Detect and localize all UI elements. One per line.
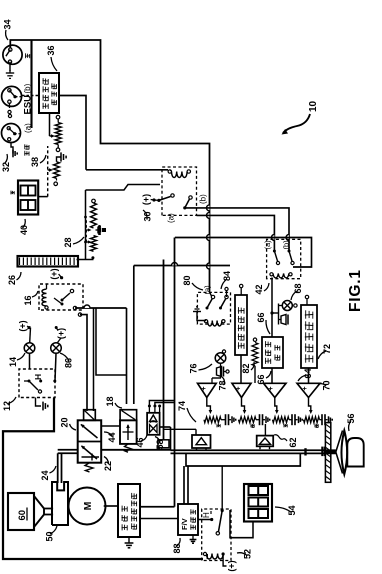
potentiometer 38a xyxy=(55,123,61,145)
pipe risers to box 46 xyxy=(170,427,172,450)
svg-text:H: H xyxy=(33,374,43,380)
output arrow T3 xyxy=(275,398,277,413)
wire bus to pump control xyxy=(140,506,175,508)
pipe flange at wall xyxy=(321,447,323,457)
contact arms of relay 80 xyxy=(206,307,209,310)
wire RC3 to box 62 xyxy=(264,424,266,436)
contact b of relay 30 xyxy=(183,206,186,209)
contact b of relay 42 xyxy=(288,250,291,253)
valve 20 position arrows xyxy=(82,446,98,459)
pedestal of box 62 xyxy=(259,446,261,449)
potentiometer 28b xyxy=(91,236,97,252)
svg-text:24: 24 xyxy=(40,470,50,480)
potentiometer 38b xyxy=(54,162,60,179)
relay 16 dashed box xyxy=(39,284,83,310)
wire lamp 14 to box 12 xyxy=(29,353,31,369)
wire box36 to pot A xyxy=(49,113,51,136)
stub to filter box 72 xyxy=(306,299,308,305)
wire border to coil 52 xyxy=(206,554,208,559)
contact arms of switch 16 xyxy=(61,299,64,302)
lower pipe run xyxy=(186,453,300,466)
svg-text:32: 32 xyxy=(1,162,11,172)
wire bar 26 to pot chain xyxy=(77,259,94,261)
measure box 66 xyxy=(262,337,283,368)
terminal dots below mid selector xyxy=(8,103,10,108)
svg-text:+: + xyxy=(302,386,309,390)
svg-text:42: 42 xyxy=(254,284,264,294)
coil 30 xyxy=(172,172,188,178)
svg-text:(a): (a) xyxy=(167,213,176,223)
main relay bus segment 2 xyxy=(174,238,176,507)
ground below box 12 xyxy=(36,398,42,407)
pedestal of box 74 xyxy=(196,448,198,450)
svg-text:(+): (+) xyxy=(141,194,151,205)
gang junction dots xyxy=(84,216,87,219)
bus 163 wire xyxy=(163,260,165,441)
contact terminals 16 xyxy=(73,306,76,309)
svg-text:(a): (a) xyxy=(24,123,33,133)
relay 52 dashed box xyxy=(202,509,231,561)
svg-text:FIG.1: FIG.1 xyxy=(347,269,364,312)
hopper 60 xyxy=(8,493,34,530)
buzzer 78b near lamp 68 xyxy=(279,319,282,321)
svg-text:+: + xyxy=(268,386,275,390)
svg-text:F/V: F/V xyxy=(180,518,189,530)
svg-text:(b): (b) xyxy=(199,194,208,204)
ground of selector 32 xyxy=(11,143,13,154)
ground between 34 and mid selector xyxy=(9,62,11,67)
nozzle body 56 xyxy=(347,438,363,467)
main pipe from valve 20 xyxy=(101,449,170,451)
relay 42 dashed box xyxy=(267,239,301,278)
wire bus into relay 80 xyxy=(210,292,212,296)
output arrow T2 xyxy=(242,398,245,413)
valve 18 spring xyxy=(125,444,132,452)
check valve cone xyxy=(150,415,158,422)
svg-text:62: 62 xyxy=(288,437,298,447)
pipe drop to FV converter xyxy=(183,466,185,504)
svg-text:18: 18 xyxy=(105,396,115,406)
svg-text:+: + xyxy=(236,386,243,390)
svg-text:(+): (+) xyxy=(49,268,59,279)
flow transducer box 62 xyxy=(257,436,274,447)
switch arm in box 12 xyxy=(28,380,31,383)
wire box 72 to opamp T4 xyxy=(308,368,310,383)
coil 16 xyxy=(42,289,47,306)
svg-text:38: 38 xyxy=(30,157,40,167)
sensor array bar 26 xyxy=(18,256,79,267)
svg-text:(b): (b) xyxy=(23,83,32,93)
selector switch mid xyxy=(2,86,22,106)
wires box 46 to bus xyxy=(149,401,174,407)
wire W2 drop xyxy=(85,190,87,260)
svg-text:60: 60 xyxy=(17,510,28,521)
warning lamp 68 xyxy=(279,305,283,307)
wire from selector 34 to relay bus xyxy=(10,40,209,292)
svg-text:16: 16 xyxy=(23,295,33,305)
wire box36 right to relay30 coil xyxy=(59,96,86,170)
pipe stub past wall xyxy=(324,451,336,453)
relay 30 dashed box xyxy=(162,167,197,215)
svg-text:34: 34 xyxy=(3,19,13,29)
ground bracket of coil 80 xyxy=(197,312,206,321)
wire contact 52 to pipe xyxy=(221,466,223,501)
wire valve 20 to valve 18 xyxy=(101,425,120,427)
wiper arrow 28a xyxy=(86,229,88,231)
ESU bus wire xyxy=(30,40,32,128)
opamp T2 xyxy=(232,383,251,397)
svg-text:20: 20 xyxy=(60,417,70,427)
svg-text:74: 74 xyxy=(177,401,187,411)
contact a of relay 30 xyxy=(154,199,159,201)
terminal of pot chain 28 xyxy=(92,199,96,203)
wire display 54 to relay 52 xyxy=(230,510,253,538)
stub of pressure box xyxy=(240,288,242,295)
pressure absent box xyxy=(235,295,247,355)
wire to valve 18 solenoid xyxy=(75,307,127,309)
spray cone 56 xyxy=(336,452,343,474)
wiper arrow 28b xyxy=(86,241,88,243)
svg-text:78: 78 xyxy=(218,380,228,390)
svg-text:28: 28 xyxy=(63,237,73,247)
check valve box 46 xyxy=(147,413,160,435)
coil 52 xyxy=(206,554,223,560)
pump motor M xyxy=(69,488,106,525)
svg-text:82: 82 xyxy=(241,363,251,373)
valve solenoid link wires xyxy=(93,308,95,411)
ground of box 88 xyxy=(192,535,194,540)
relay 80 dashed box xyxy=(197,292,230,324)
coil 42 xyxy=(273,274,289,278)
contact arm relay 52 xyxy=(221,509,224,512)
valve 20 solenoid xyxy=(84,410,96,421)
svg-text:14: 14 xyxy=(8,357,18,367)
svg-text:(+): (+) xyxy=(18,320,28,331)
wire lamp group to T1 xyxy=(220,371,222,378)
opamp T3 xyxy=(264,383,287,397)
svg-text:56: 56 xyxy=(346,413,356,423)
RC network under T2 xyxy=(239,417,257,423)
lamp 14 xyxy=(24,343,35,354)
wire bus to box 74 zone xyxy=(163,428,196,430)
wire coil 42 to measure box 66 xyxy=(271,278,273,338)
wire W2 to relay 30 xyxy=(86,185,161,191)
target wall hatched strip xyxy=(325,423,330,483)
ground of box 48 xyxy=(128,537,130,543)
output arrow T4 xyxy=(309,398,311,413)
svg-text:10: 10 xyxy=(308,100,319,112)
wire 265 to relay 42 zone xyxy=(134,265,230,267)
selector switch 32 laser xyxy=(2,124,21,143)
svg-text:(b): (b) xyxy=(282,240,291,250)
svg-text:M: M xyxy=(82,501,94,510)
opamp T4 xyxy=(297,383,320,397)
pressure transducer box 74 xyxy=(192,435,211,448)
spray lens xyxy=(341,430,347,475)
tiny text near display 40 xyxy=(10,191,12,195)
wire gang to display 40 xyxy=(38,196,48,198)
valve 20 right cell diagonal xyxy=(81,425,98,439)
7-segment display 40 xyxy=(18,181,38,215)
gang dashed line 28 xyxy=(85,219,87,243)
wire W1 into coil 30 xyxy=(86,169,168,171)
7-segment display 54 xyxy=(244,484,272,522)
pump control box 48 xyxy=(118,484,140,537)
terminal bottom of 28 chain xyxy=(91,256,94,259)
wire pressure box to opamp T2 xyxy=(240,355,242,383)
bowtie in box 46 xyxy=(150,425,158,433)
contact feed wire A xyxy=(185,208,289,251)
wire motor to pump control xyxy=(104,505,118,507)
potentiometer 28a xyxy=(91,203,97,228)
junction connector mark xyxy=(98,227,101,235)
text laser xyxy=(24,151,26,156)
svg-text:80: 80 xyxy=(182,275,192,285)
selector switch 34 xyxy=(3,45,22,64)
pump block 50 xyxy=(52,482,68,525)
svg-text:76: 76 xyxy=(189,363,199,373)
contact a of relay 42 xyxy=(273,250,276,253)
lamp 86 xyxy=(51,343,62,354)
pipe pair valve 20 to pump xyxy=(58,449,78,451)
offline box 36 xyxy=(39,73,59,113)
wire 42 right drop xyxy=(133,266,135,405)
machine enclosure outline xyxy=(3,398,203,559)
junction wire to warning lamp 68 xyxy=(270,311,273,314)
svg-text:64: 64 xyxy=(303,368,313,378)
wire box48 to box88 xyxy=(140,518,178,520)
valve 20 body xyxy=(78,420,102,462)
output arrow T1 xyxy=(207,398,211,413)
hopper 60 funnel xyxy=(44,514,53,516)
svg-text:44: 44 xyxy=(107,432,117,442)
svg-text:68: 68 xyxy=(293,283,303,293)
dashed wire to box 36 xyxy=(15,96,22,98)
text shuki xyxy=(25,53,27,58)
FV converter box 88 xyxy=(178,504,198,535)
svg-text:26: 26 xyxy=(7,275,17,285)
valve 18 arrow xyxy=(127,425,129,440)
svg-text:46: 46 xyxy=(135,437,145,447)
small ground right of pot 28a xyxy=(96,229,99,231)
svg-text:66: 66 xyxy=(256,312,266,322)
pipe joint flange xyxy=(304,448,306,455)
wire box88 to relay 52 contact xyxy=(199,519,212,521)
RC network under T3 xyxy=(273,417,290,423)
switch box 12 dashed xyxy=(19,369,55,398)
lamp 76a xyxy=(215,353,226,364)
wire box 66 to opamp T3 xyxy=(271,368,273,383)
stubs on box 46 xyxy=(148,408,150,413)
wire resistor 82 down xyxy=(254,366,256,383)
wire C to filter lamp zone xyxy=(175,238,312,268)
ground of pot 38b xyxy=(57,157,62,162)
svg-text:H: H xyxy=(202,512,211,518)
dashed gang line 38 xyxy=(47,146,49,197)
filter exchange box 72 xyxy=(301,305,317,368)
stub of contact 84 xyxy=(226,291,228,297)
buzzer 78 xyxy=(217,367,222,377)
valve 20 spring xyxy=(85,463,93,472)
svg-text:(+): (+) xyxy=(227,560,237,571)
contact feed wire B xyxy=(197,215,275,251)
valve 18 solenoid xyxy=(120,410,137,421)
svg-text:88: 88 xyxy=(172,543,182,553)
RC network under T4 xyxy=(304,417,320,423)
wire lamp 86 to box 12 xyxy=(55,353,56,381)
main horizontal pipe pair xyxy=(171,449,336,451)
wire coil 52 to plus xyxy=(223,554,226,566)
svg-text:(a): (a) xyxy=(203,285,212,295)
svg-text:ESU: ESU xyxy=(23,95,34,115)
svg-text:36: 36 xyxy=(46,45,56,55)
resistor 82 xyxy=(252,343,258,366)
svg-text:(a): (a) xyxy=(263,240,272,250)
coil 80 xyxy=(208,321,222,327)
svg-text:70: 70 xyxy=(322,380,332,390)
valve 18 body xyxy=(120,420,137,444)
wire hops on relay bus xyxy=(207,205,210,211)
RC network under T1 xyxy=(204,417,221,423)
terminal box on bus 163 xyxy=(158,440,169,448)
opamp T1 xyxy=(198,383,217,397)
svg-text:+: + xyxy=(201,386,208,390)
wire to valve 20 solenoid xyxy=(80,315,87,411)
